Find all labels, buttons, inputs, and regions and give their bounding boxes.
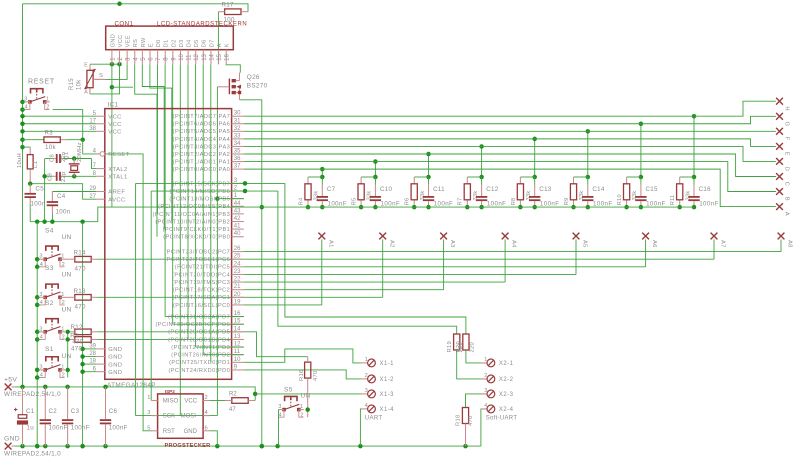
wirepad H bbox=[776, 98, 783, 105]
svg-text:470: 470 bbox=[71, 346, 82, 353]
svg-text:RS: RS bbox=[133, 39, 139, 47]
svg-text:MOSI: MOSI bbox=[181, 414, 197, 420]
svg-text:D4: D4 bbox=[187, 39, 193, 47]
svg-text:3: 3 bbox=[147, 410, 150, 416]
wire RC tap C15 to PA rail bbox=[640, 124, 642, 177]
svg-text:(PCINT28/OC1B)PD4: (PCINT28/OC1B)PD4 bbox=[168, 337, 230, 343]
wire PB7 SCK row bbox=[136, 182, 285, 184]
svg-text:(PCINT3/ADC3)PA3: (PCINT3/ADC3)PA3 bbox=[173, 144, 230, 150]
svg-text:S3: S3 bbox=[45, 265, 54, 272]
svg-text:100nF: 100nF bbox=[49, 425, 68, 432]
svg-text:C3: C3 bbox=[71, 408, 80, 415]
svg-text:2: 2 bbox=[205, 395, 208, 401]
svg-text:(PCINT20/TDO)PC4: (PCINT20/TDO)PC4 bbox=[172, 272, 230, 278]
svg-text:R17: R17 bbox=[222, 1, 235, 8]
wire LCD D4 signal to PD4 bbox=[187, 64, 189, 339]
svg-text:H: H bbox=[784, 106, 790, 110]
svg-text:16: 16 bbox=[225, 53, 231, 60]
node VCC rows taps on +5V rail bbox=[20, 100, 25, 105]
svg-text:25: 25 bbox=[234, 254, 241, 260]
svg-text:C7: C7 bbox=[327, 186, 336, 193]
wire R13 to PC1 row to A2 bbox=[97, 296, 383, 298]
svg-text:100nF: 100nF bbox=[699, 201, 719, 208]
wirepad GND bbox=[4, 436, 61, 458]
push button S4 bbox=[37, 246, 65, 268]
svg-text:100nF: 100nF bbox=[71, 425, 90, 432]
capacitor C10 100nF bbox=[370, 186, 400, 208]
svg-text:MISO: MISO bbox=[163, 399, 179, 405]
connector ISP PROGSTECKER box bbox=[158, 389, 211, 449]
svg-text:UN: UN bbox=[62, 353, 72, 360]
svg-text:CON1: CON1 bbox=[115, 21, 134, 28]
wire PD3 row bbox=[196, 346, 244, 348]
wire LCD D2 signal to PD6 bbox=[172, 64, 174, 324]
wire PD1 TXD row to X1-1 bbox=[244, 349, 362, 363]
pad X2-3 bbox=[481, 388, 514, 398]
wire PD7 row bbox=[165, 316, 244, 318]
svg-text:(PCINT16/SCL)PC0: (PCINT16/SCL)PC0 bbox=[173, 303, 230, 309]
svg-text:E: E bbox=[84, 63, 88, 69]
svg-text:30: 30 bbox=[234, 111, 241, 117]
svg-text:R14: R14 bbox=[74, 250, 87, 257]
svg-text:R13: R13 bbox=[74, 288, 87, 295]
svg-text:2: 2 bbox=[365, 373, 368, 379]
pad X1-1 bbox=[362, 357, 395, 367]
svg-text:G: G bbox=[784, 122, 790, 127]
svg-text:100nF: 100nF bbox=[109, 425, 128, 432]
svg-text:C15: C15 bbox=[646, 186, 659, 193]
resistor R7 33k bbox=[458, 184, 479, 206]
wirepad A bbox=[776, 203, 783, 210]
svg-text:S: S bbox=[99, 73, 103, 79]
svg-text:(PCINT10/INT2/AIN0)PB2: (PCINT10/INT2/AIN0)PB2 bbox=[155, 219, 230, 225]
svg-text:29: 29 bbox=[89, 186, 96, 192]
capacitor C1 1u bbox=[14, 387, 35, 446]
svg-text:(PCINT0/ADC0)PA0: (PCINT0/ADC0)PA0 bbox=[173, 167, 230, 173]
wire RC tap C7 to PA rail bbox=[321, 169, 323, 177]
svg-text:12: 12 bbox=[194, 53, 200, 60]
capacitor C13 100nF bbox=[529, 186, 559, 208]
svg-text:4: 4 bbox=[365, 403, 368, 409]
svg-text:S5: S5 bbox=[284, 387, 293, 394]
wire R17 to LCD pin15 A bbox=[217, 12, 219, 64]
wire R14 to PC6 row to A7 bbox=[97, 258, 714, 260]
wire PA rail 7 to right pad bbox=[244, 169, 776, 206]
wire X1-3 feed bbox=[255, 393, 361, 395]
wire GND pin 6 row bbox=[83, 371, 97, 373]
crystal Q1 20MHz bbox=[64, 142, 83, 172]
svg-text:C12: C12 bbox=[486, 186, 499, 193]
svg-text:10k: 10k bbox=[45, 144, 56, 151]
svg-text:(PCINT15/SCK)PB7: (PCINT15/SCK)PB7 bbox=[173, 181, 231, 187]
svg-text:44: 44 bbox=[234, 201, 241, 207]
svg-text:33k: 33k bbox=[314, 190, 320, 200]
wire PC0 row to A pad bbox=[244, 304, 322, 306]
svg-text:35: 35 bbox=[234, 149, 241, 155]
svg-text:470: 470 bbox=[313, 370, 319, 381]
resistor R19 220 bbox=[447, 334, 464, 353]
svg-text:33k: 33k bbox=[420, 190, 426, 200]
resistor R4 33k bbox=[298, 184, 319, 206]
svg-text:13: 13 bbox=[234, 334, 241, 340]
svg-text:(PCINT19/TMS)PC3: (PCINT19/TMS)PC3 bbox=[172, 280, 230, 286]
svg-text:K: K bbox=[225, 43, 231, 47]
svg-text:VCC: VCC bbox=[184, 399, 197, 405]
svg-text:100nF: 100nF bbox=[540, 201, 560, 208]
svg-text:X1-1: X1-1 bbox=[380, 361, 395, 367]
svg-text:(PCINT21/TDI)PC5: (PCINT21/TDI)PC5 bbox=[175, 265, 230, 271]
wire ISP VCC to R2 bbox=[210, 400, 226, 402]
wire RC tap C11 to PA rail bbox=[428, 154, 430, 177]
svg-text:R12: R12 bbox=[71, 324, 84, 331]
svg-text:4: 4 bbox=[484, 403, 487, 409]
svg-text:33k: 33k bbox=[526, 190, 532, 200]
resistor R9 33k bbox=[564, 184, 585, 206]
svg-text:A4: A4 bbox=[511, 240, 517, 248]
wire C4 leads bbox=[51, 192, 53, 202]
svg-text:5: 5 bbox=[147, 425, 150, 431]
wire PC7 row to A pad bbox=[244, 251, 781, 253]
wire LCD D7 signal to PD1 bbox=[210, 64, 212, 362]
svg-text:UN: UN bbox=[62, 307, 72, 314]
wire LCD D1 signal to PD7 bbox=[164, 64, 166, 316]
svg-text:F: F bbox=[784, 137, 790, 141]
svg-text:(PCINT30/OC2B/ICP)PD6: (PCINT30/OC2B/ICP)PD6 bbox=[155, 322, 230, 328]
resistor R5 33k bbox=[352, 184, 373, 206]
wire MOSI row to ISP pin4 bbox=[136, 415, 218, 417]
capacitor C4 bbox=[47, 193, 71, 216]
svg-text:R7: R7 bbox=[458, 198, 464, 206]
svg-text:GND: GND bbox=[108, 370, 122, 376]
svg-text:14: 14 bbox=[234, 326, 241, 332]
wire GND pin 18 row bbox=[83, 363, 97, 365]
svg-text:1: 1 bbox=[147, 395, 150, 401]
resistor R8 33k bbox=[511, 184, 532, 206]
wire +5V left vertical rail bbox=[22, 4, 24, 387]
wire PB5 row bbox=[217, 198, 243, 200]
svg-text:(PCINT29/OC1A)PD5: (PCINT29/OC1A)PD5 bbox=[168, 330, 230, 336]
svg-text:C6: C6 bbox=[109, 408, 118, 415]
wire PB6 staircase to R19 bbox=[278, 191, 457, 334]
push button S2 bbox=[37, 319, 65, 341]
svg-text:33k: 33k bbox=[367, 190, 373, 200]
wire RC tap C16 to PA rail bbox=[693, 116, 695, 177]
wire MISO vertical to ISP bbox=[150, 191, 152, 400]
node R15 top junction pin1 bbox=[110, 62, 115, 67]
wire LCD D5 signal to PD3 bbox=[195, 64, 197, 347]
svg-text:24: 24 bbox=[234, 261, 241, 267]
svg-text:C11: C11 bbox=[433, 186, 445, 193]
capacitor C3 100nF bbox=[62, 387, 90, 446]
pad X2-4 bbox=[481, 403, 514, 413]
wire CON1 pin1 GND down through IC bbox=[111, 64, 113, 207]
svg-text:Q1: Q1 bbox=[64, 152, 70, 160]
wire LCD pin16 K to Q26 drain bbox=[226, 64, 240, 72]
svg-text:2: 2 bbox=[62, 335, 65, 341]
resistor R6 33k bbox=[405, 184, 426, 206]
wire Q26 source to ground vertical bbox=[240, 100, 262, 446]
wire RC tap C13 to PA rail bbox=[534, 139, 536, 177]
svg-text:GND: GND bbox=[108, 347, 122, 353]
svg-text:1: 1 bbox=[61, 326, 64, 332]
svg-text:R8: R8 bbox=[511, 198, 517, 206]
svg-text:3: 3 bbox=[484, 388, 487, 394]
svg-text:B: B bbox=[784, 197, 790, 201]
svg-text:X2-4: X2-4 bbox=[499, 407, 514, 413]
svg-text:D0: D0 bbox=[156, 39, 162, 47]
svg-text:33k: 33k bbox=[579, 190, 585, 200]
svg-text:C10: C10 bbox=[380, 186, 393, 193]
svg-text:PROGSTECKER: PROGSTECKER bbox=[165, 443, 211, 449]
svg-text:(PCINT24/RXD0)PD0: (PCINT24/RXD0)PD0 bbox=[168, 368, 230, 374]
resistor R16 470 bbox=[299, 357, 319, 418]
svg-text:WIREPAD2,54/1,0: WIREPAD2,54/1,0 bbox=[4, 450, 61, 457]
wire GND bottom rail bbox=[15, 445, 481, 447]
svg-text:10: 10 bbox=[179, 53, 185, 60]
svg-text:D7: D7 bbox=[209, 39, 215, 47]
wirepad A5 bbox=[573, 233, 588, 275]
svg-text:(PCINT17/SDA)PC1: (PCINT17/SDA)PC1 bbox=[172, 295, 230, 301]
svg-text:SCK: SCK bbox=[163, 414, 175, 420]
wirepad A3 bbox=[440, 233, 455, 290]
wire VCC pin 5 row bbox=[23, 115, 97, 117]
svg-text:A: A bbox=[217, 43, 223, 47]
wire X1-4 to GND rail bbox=[360, 409, 361, 446]
wire PC4 row to A pad bbox=[244, 273, 576, 275]
svg-text:(PCINT14/MISO)PB6: (PCINT14/MISO)PB6 bbox=[169, 189, 230, 195]
svg-text:VCC: VCC bbox=[108, 130, 121, 136]
svg-text:100nF: 100nF bbox=[434, 201, 454, 208]
svg-text:A5: A5 bbox=[582, 240, 588, 248]
wire button ground vertical bbox=[36, 222, 38, 446]
svg-text:1: 1 bbox=[365, 357, 368, 363]
svg-text:UN: UN bbox=[301, 393, 311, 400]
svg-text:100n: 100n bbox=[56, 209, 71, 216]
connector CON1 pins bbox=[110, 34, 230, 64]
svg-text:(PCINT11/OC0A/AIN1)PB3: (PCINT11/OC0A/AIN1)PB3 bbox=[153, 212, 231, 218]
wire R1 PD4 row bbox=[97, 338, 244, 340]
svg-text:38: 38 bbox=[89, 126, 96, 132]
wire PC3 row to A pad bbox=[244, 281, 505, 283]
svg-text:(PCINT9/CLKO/T1)PB1: (PCINT9/CLKO/T1)PB1 bbox=[163, 227, 231, 233]
wire AREF line bbox=[52, 191, 96, 193]
svg-text:10k: 10k bbox=[76, 79, 82, 90]
wire RESET button left pins to rail bbox=[23, 101, 25, 103]
IC1 right pin stubs and labels bbox=[153, 111, 244, 374]
capacitor C14 100nF bbox=[582, 186, 612, 208]
svg-text:10: 10 bbox=[234, 357, 241, 363]
resistor R17 bbox=[218, 1, 248, 23]
svg-text:C13: C13 bbox=[539, 186, 552, 193]
svg-text:D5: D5 bbox=[194, 39, 200, 47]
svg-text:33: 33 bbox=[234, 133, 241, 139]
svg-text:(PCINT5/ADC5)PA5: (PCINT5/ADC5)PA5 bbox=[173, 129, 230, 135]
svg-text:1: 1 bbox=[300, 404, 303, 410]
wire LCD D6 signal to PD2 bbox=[202, 64, 204, 355]
svg-text:AVCC: AVCC bbox=[108, 197, 125, 203]
svg-text:2: 2 bbox=[62, 300, 65, 306]
svg-text:ATMEGA1284P: ATMEGA1284P bbox=[107, 382, 156, 389]
pad X1-2 bbox=[362, 373, 395, 383]
svg-text:(PCINT4/ADC4)PA4: (PCINT4/ADC4)PA4 bbox=[173, 137, 230, 143]
svg-text:RW: RW bbox=[141, 37, 147, 47]
node ground rail junctions bbox=[35, 219, 40, 224]
pad X2-1 bbox=[481, 357, 514, 367]
wire LCD D3 signal to ISP MOSI bbox=[179, 64, 181, 415]
wire PC5 row to A pad bbox=[244, 266, 646, 268]
svg-text:A3: A3 bbox=[449, 240, 455, 248]
wirepad B bbox=[776, 188, 783, 195]
svg-text:A: A bbox=[784, 212, 790, 216]
svg-text:(PCINT13/MOSI)PB5: (PCINT13/MOSI)PB5 bbox=[169, 197, 230, 203]
node +5V to X1-3 junction bbox=[253, 392, 258, 397]
node source ground on GND rail bbox=[260, 444, 265, 449]
svg-text:R2: R2 bbox=[229, 392, 237, 398]
push button S3 bbox=[37, 284, 65, 306]
node crystal top bbox=[72, 156, 77, 161]
svg-text:BS270: BS270 bbox=[247, 83, 268, 90]
wire PD2 row bbox=[203, 354, 244, 356]
svg-text:UN: UN bbox=[62, 234, 72, 241]
svg-text:E: E bbox=[784, 152, 790, 156]
IC1 left pin stubs and labels bbox=[89, 111, 129, 376]
wire C5 leads bbox=[29, 184, 31, 193]
svg-text:WIREPAD2,54/1,0: WIREPAD2,54/1,0 bbox=[4, 391, 61, 398]
node C9 ground junction bbox=[42, 174, 47, 179]
svg-text:AREF: AREF bbox=[108, 190, 125, 196]
push button S5 bbox=[278, 396, 304, 418]
svg-text:A7: A7 bbox=[720, 240, 726, 248]
svg-text:1u: 1u bbox=[27, 425, 35, 432]
wirepad +5V bbox=[4, 377, 61, 398]
svg-text:470: 470 bbox=[75, 265, 86, 272]
wire RESET net to IC pin 4 bbox=[83, 140, 100, 154]
wire GND pin 39 row bbox=[83, 348, 97, 350]
wire main GND collector vertical bbox=[82, 222, 84, 446]
svg-text:27: 27 bbox=[89, 194, 96, 200]
resistor R14 bbox=[65, 250, 97, 273]
capacitor C16 100nF bbox=[688, 186, 718, 208]
svg-text:R15: R15 bbox=[69, 78, 75, 90]
wire PA rail 2 to pad F bbox=[244, 130, 776, 132]
wirepad C bbox=[776, 173, 783, 180]
node source ground on RC rail bbox=[260, 205, 265, 210]
svg-text:A: A bbox=[84, 90, 88, 96]
svg-text:A8: A8 bbox=[787, 240, 793, 248]
wire R19 to X2-2 bbox=[457, 350, 487, 379]
svg-text:E: E bbox=[148, 43, 154, 47]
svg-text:31: 31 bbox=[234, 118, 241, 124]
svg-text:1: 1 bbox=[484, 357, 487, 363]
svg-text:34: 34 bbox=[234, 141, 241, 147]
svg-text:6: 6 bbox=[205, 425, 208, 431]
wire CON1 pin3 VEE to R15 wiper bbox=[105, 64, 127, 79]
wire analog ground rail bbox=[30, 207, 107, 222]
wire GND pin 28 row bbox=[83, 356, 97, 358]
svg-text:S2: S2 bbox=[45, 300, 54, 307]
svg-text:R6: R6 bbox=[405, 198, 411, 206]
svg-text:D6: D6 bbox=[202, 39, 208, 47]
wire PA rail 5 to right pad bbox=[244, 154, 776, 177]
svg-text:Soft-UART: Soft-UART bbox=[486, 415, 518, 421]
capacitor C5 bbox=[25, 186, 46, 208]
svg-text:X1-2: X1-2 bbox=[380, 377, 395, 383]
svg-text:100nF: 100nF bbox=[593, 201, 613, 208]
svg-text:11: 11 bbox=[187, 54, 193, 61]
svg-text:100nF: 100nF bbox=[381, 201, 401, 208]
wire XTAL1 row bbox=[63, 175, 97, 177]
svg-text:23: 23 bbox=[234, 269, 241, 275]
svg-text:41: 41 bbox=[234, 224, 241, 230]
resistor R10 33k bbox=[617, 184, 638, 206]
svg-text:C8: C8 bbox=[50, 154, 56, 162]
svg-text:2: 2 bbox=[46, 105, 49, 111]
wire LCD D0 signal to PB3 bbox=[157, 64, 159, 214]
svg-text:2: 2 bbox=[62, 373, 65, 379]
svg-text:VCC: VCC bbox=[108, 122, 121, 128]
wirepad A6 bbox=[642, 233, 657, 267]
wire PB6 MISO row bbox=[151, 190, 278, 192]
wire GND stub branch bbox=[112, 86, 133, 88]
svg-text:C: C bbox=[784, 182, 790, 186]
svg-text:X1-4: X1-4 bbox=[380, 407, 395, 413]
wire LCD E signal to PB2 bbox=[150, 64, 172, 221]
svg-text:42: 42 bbox=[234, 216, 241, 222]
svg-text:R19: R19 bbox=[447, 341, 453, 353]
connector CON1 LCD box bbox=[106, 21, 248, 50]
wire RC tap C10 to PA rail bbox=[374, 162, 376, 177]
svg-text:C4: C4 bbox=[57, 193, 66, 200]
svg-text:1: 1 bbox=[61, 292, 64, 298]
wirepad A7 bbox=[711, 233, 726, 260]
wire PA rail 0 to right pad bbox=[244, 101, 776, 116]
svg-text:ISP2: ISP2 bbox=[165, 389, 175, 394]
wire CON1 GND/VCC top to R15 bbox=[90, 63, 120, 65]
wire PB7 staircase to R20 bbox=[285, 183, 466, 334]
wire X2-4 to GND rail bbox=[481, 409, 487, 446]
svg-text:C16: C16 bbox=[699, 186, 712, 193]
svg-text:RESET: RESET bbox=[108, 152, 129, 158]
svg-text:(PCINT7/ADC7)PA7: (PCINT7/ADC7)PA7 bbox=[173, 114, 230, 120]
svg-text:VEE: VEE bbox=[126, 35, 132, 47]
wirepad A2 bbox=[379, 233, 394, 298]
pad X1-4 bbox=[362, 403, 395, 413]
wirepad G bbox=[776, 113, 783, 120]
svg-text:IC1: IC1 bbox=[108, 102, 119, 109]
transistor Q26 BS270 bbox=[217, 73, 267, 100]
inductor L1 bbox=[17, 153, 39, 169]
svg-text:470: 470 bbox=[468, 415, 474, 426]
svg-text:(PCINT22/TOSC1)PC6: (PCINT22/TOSC1)PC6 bbox=[164, 257, 230, 263]
wire crystal leads bbox=[73, 159, 75, 164]
svg-text:UN: UN bbox=[62, 272, 72, 279]
wire S1 S2 right chain bbox=[67, 332, 69, 378]
svg-text:X2-1: X2-1 bbox=[499, 361, 514, 367]
svg-text:22: 22 bbox=[234, 277, 241, 283]
op-amp IC1 ATMEGA1284P box bbox=[105, 102, 232, 389]
svg-text:18: 18 bbox=[89, 359, 96, 365]
resistor R13 bbox=[65, 288, 97, 311]
svg-text:43: 43 bbox=[234, 208, 241, 214]
svg-text:C2: C2 bbox=[49, 408, 58, 415]
svg-text:GND: GND bbox=[108, 355, 122, 361]
svg-text:R18: R18 bbox=[456, 414, 462, 426]
capacitor C8 bbox=[50, 151, 67, 163]
wire S5 left to GND rail bbox=[278, 409, 281, 411]
node GND rail dots bbox=[20, 444, 25, 449]
wire Q26 gate / PB5 / MOSI vertical bbox=[216, 87, 218, 416]
svg-text:XTAL2: XTAL2 bbox=[108, 167, 127, 173]
